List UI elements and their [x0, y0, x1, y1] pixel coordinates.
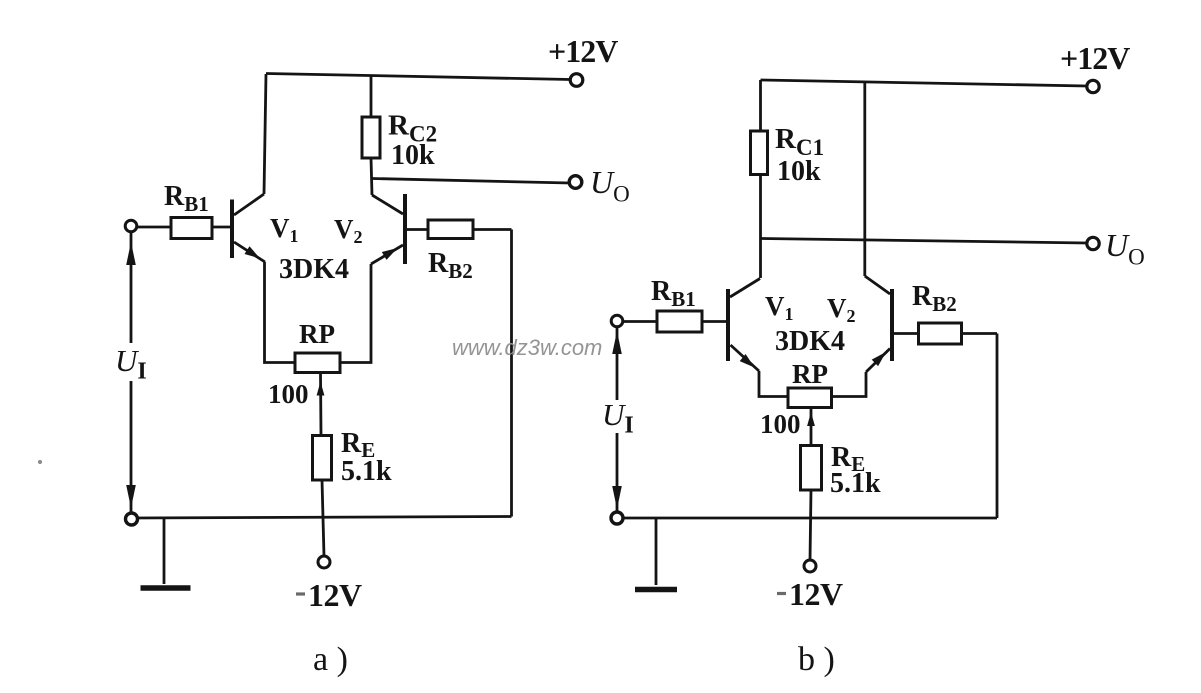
svg-text:RB2: RB2	[428, 248, 473, 283]
svg-text:+12V: +12V	[548, 33, 618, 69]
svg-text:a ): a )	[313, 641, 348, 678]
svg-text:RB1: RB1	[164, 181, 209, 216]
transistor V1 a	[232, 194, 265, 262]
ground b	[635, 518, 677, 590]
node input terminal b	[611, 315, 623, 327]
svg-text:10k: 10k	[391, 140, 435, 171]
wire bottom rail b	[617, 517, 997, 520]
wire gap for UI b	[602, 400, 633, 433]
node UO terminal b	[1087, 237, 1099, 249]
svg-text:5.1k: 5.1k	[341, 456, 392, 487]
wire input vertical a	[130, 232, 133, 513]
wire RE to -12V b	[810, 490, 811, 561]
wire input to RB1 a	[137, 226, 172, 229]
wire bottom rail a	[131, 517, 512, 519]
label -12V b	[777, 592, 786, 595]
resistor RC1 b	[751, 131, 768, 175]
svg-text:V2: V2	[334, 214, 363, 247]
node +12V terminal a	[570, 74, 583, 87]
svg-text:3DK4: 3DK4	[279, 254, 349, 285]
wiper arrow RP b	[807, 408, 815, 446]
resistor RE b	[801, 446, 822, 491]
wire RB2 to right vertical a	[473, 228, 512, 231]
wire gap for UI a	[115, 343, 147, 381]
wire V2 collector vertical b	[863, 81, 866, 276]
resistor RB2 a	[428, 220, 473, 239]
svg-text:RB2: RB2	[912, 281, 957, 316]
wire RC2 top a	[370, 75, 373, 118]
wire RP to V2 emitter a	[340, 264, 371, 363]
svg-text:RP: RP	[299, 319, 335, 349]
wire RB2 to right vertical b	[962, 332, 998, 335]
svg-text:5.1k: 5.1k	[830, 468, 881, 499]
resistor RE a	[313, 436, 332, 481]
svg-text:100: 100	[760, 409, 801, 439]
arrow up UI a	[126, 242, 136, 265]
arrow up UI b	[612, 331, 622, 354]
node bottom-left terminal b	[611, 512, 623, 524]
wire input vertical b	[616, 327, 619, 513]
wire V1 emitter to RP b	[759, 371, 788, 397]
resistor RB1 b	[657, 311, 702, 332]
wire UO tap b	[761, 239, 1088, 244]
potentiometer RP a	[295, 353, 340, 373]
svg-text:RB1: RB1	[651, 276, 696, 311]
svg-text:RP: RP	[792, 359, 828, 389]
ground a	[141, 518, 191, 588]
wire V2 base to RB2 a	[407, 228, 428, 231]
transistor V2 b	[865, 276, 892, 372]
node -12V terminal a	[318, 556, 330, 568]
transistor V2 a	[371, 194, 405, 264]
transistor V1 b	[728, 279, 760, 372]
wire right vertical a	[510, 230, 513, 517]
node -12V terminal b	[804, 560, 816, 572]
wire right vertical b	[996, 334, 999, 519]
arrow down UI a	[126, 485, 136, 508]
node UO terminal a	[569, 176, 582, 189]
wire V1 collector vertical b	[759, 175, 762, 279]
resistor RB2 b	[919, 323, 962, 344]
wire V2 base to RB2 b	[894, 332, 919, 335]
wire RE to -12V a	[322, 480, 324, 556]
wire top rail b	[761, 80, 1088, 86]
svg-text:b ): b )	[798, 641, 835, 678]
svg-text:12V: 12V	[789, 576, 843, 612]
svg-text:10k: 10k	[777, 156, 821, 187]
svg-text:+12V: +12V	[1060, 40, 1130, 76]
label -12V a	[296, 592, 305, 595]
wire RC2 bottom a	[371, 158, 372, 195]
svg-text:UO: UO	[1105, 227, 1145, 270]
svg-text:V1: V1	[270, 213, 299, 246]
node input terminal a	[125, 220, 137, 232]
node +12V terminal b	[1087, 80, 1099, 92]
arrow down UI b	[612, 486, 622, 509]
wire RB1 to V1 base b	[702, 320, 726, 323]
svg-text:UO: UO	[590, 164, 630, 207]
svg-text:V1: V1	[765, 291, 794, 324]
svg-text:100: 100	[268, 379, 309, 409]
wire RC1 top b	[759, 80, 762, 131]
svg-text:3DK4: 3DK4	[775, 326, 845, 357]
svg-text:RC1: RC1	[775, 123, 824, 160]
wire V1 emitter to RP a	[265, 262, 296, 363]
wire V1 collector vertical a	[264, 74, 266, 194]
wire top rail a	[266, 74, 571, 80]
wire RP to V2 emitter b	[832, 372, 867, 397]
wire input to RB1 b	[623, 320, 658, 323]
wire UO tap a	[372, 179, 570, 184]
scan speck	[38, 460, 42, 464]
svg-text:www.dz3w.com: www.dz3w.com	[452, 335, 602, 360]
resistor RB1 a	[171, 218, 212, 239]
node bottom-left terminal a	[126, 513, 138, 525]
wire RB1 to V1 base a	[212, 226, 230, 229]
svg-text:V2: V2	[827, 293, 856, 326]
resistor RC2 a	[362, 117, 380, 158]
svg-text:12V: 12V	[308, 577, 362, 613]
potentiometer RP b	[788, 388, 832, 408]
wiper arrow RP a	[317, 374, 325, 436]
